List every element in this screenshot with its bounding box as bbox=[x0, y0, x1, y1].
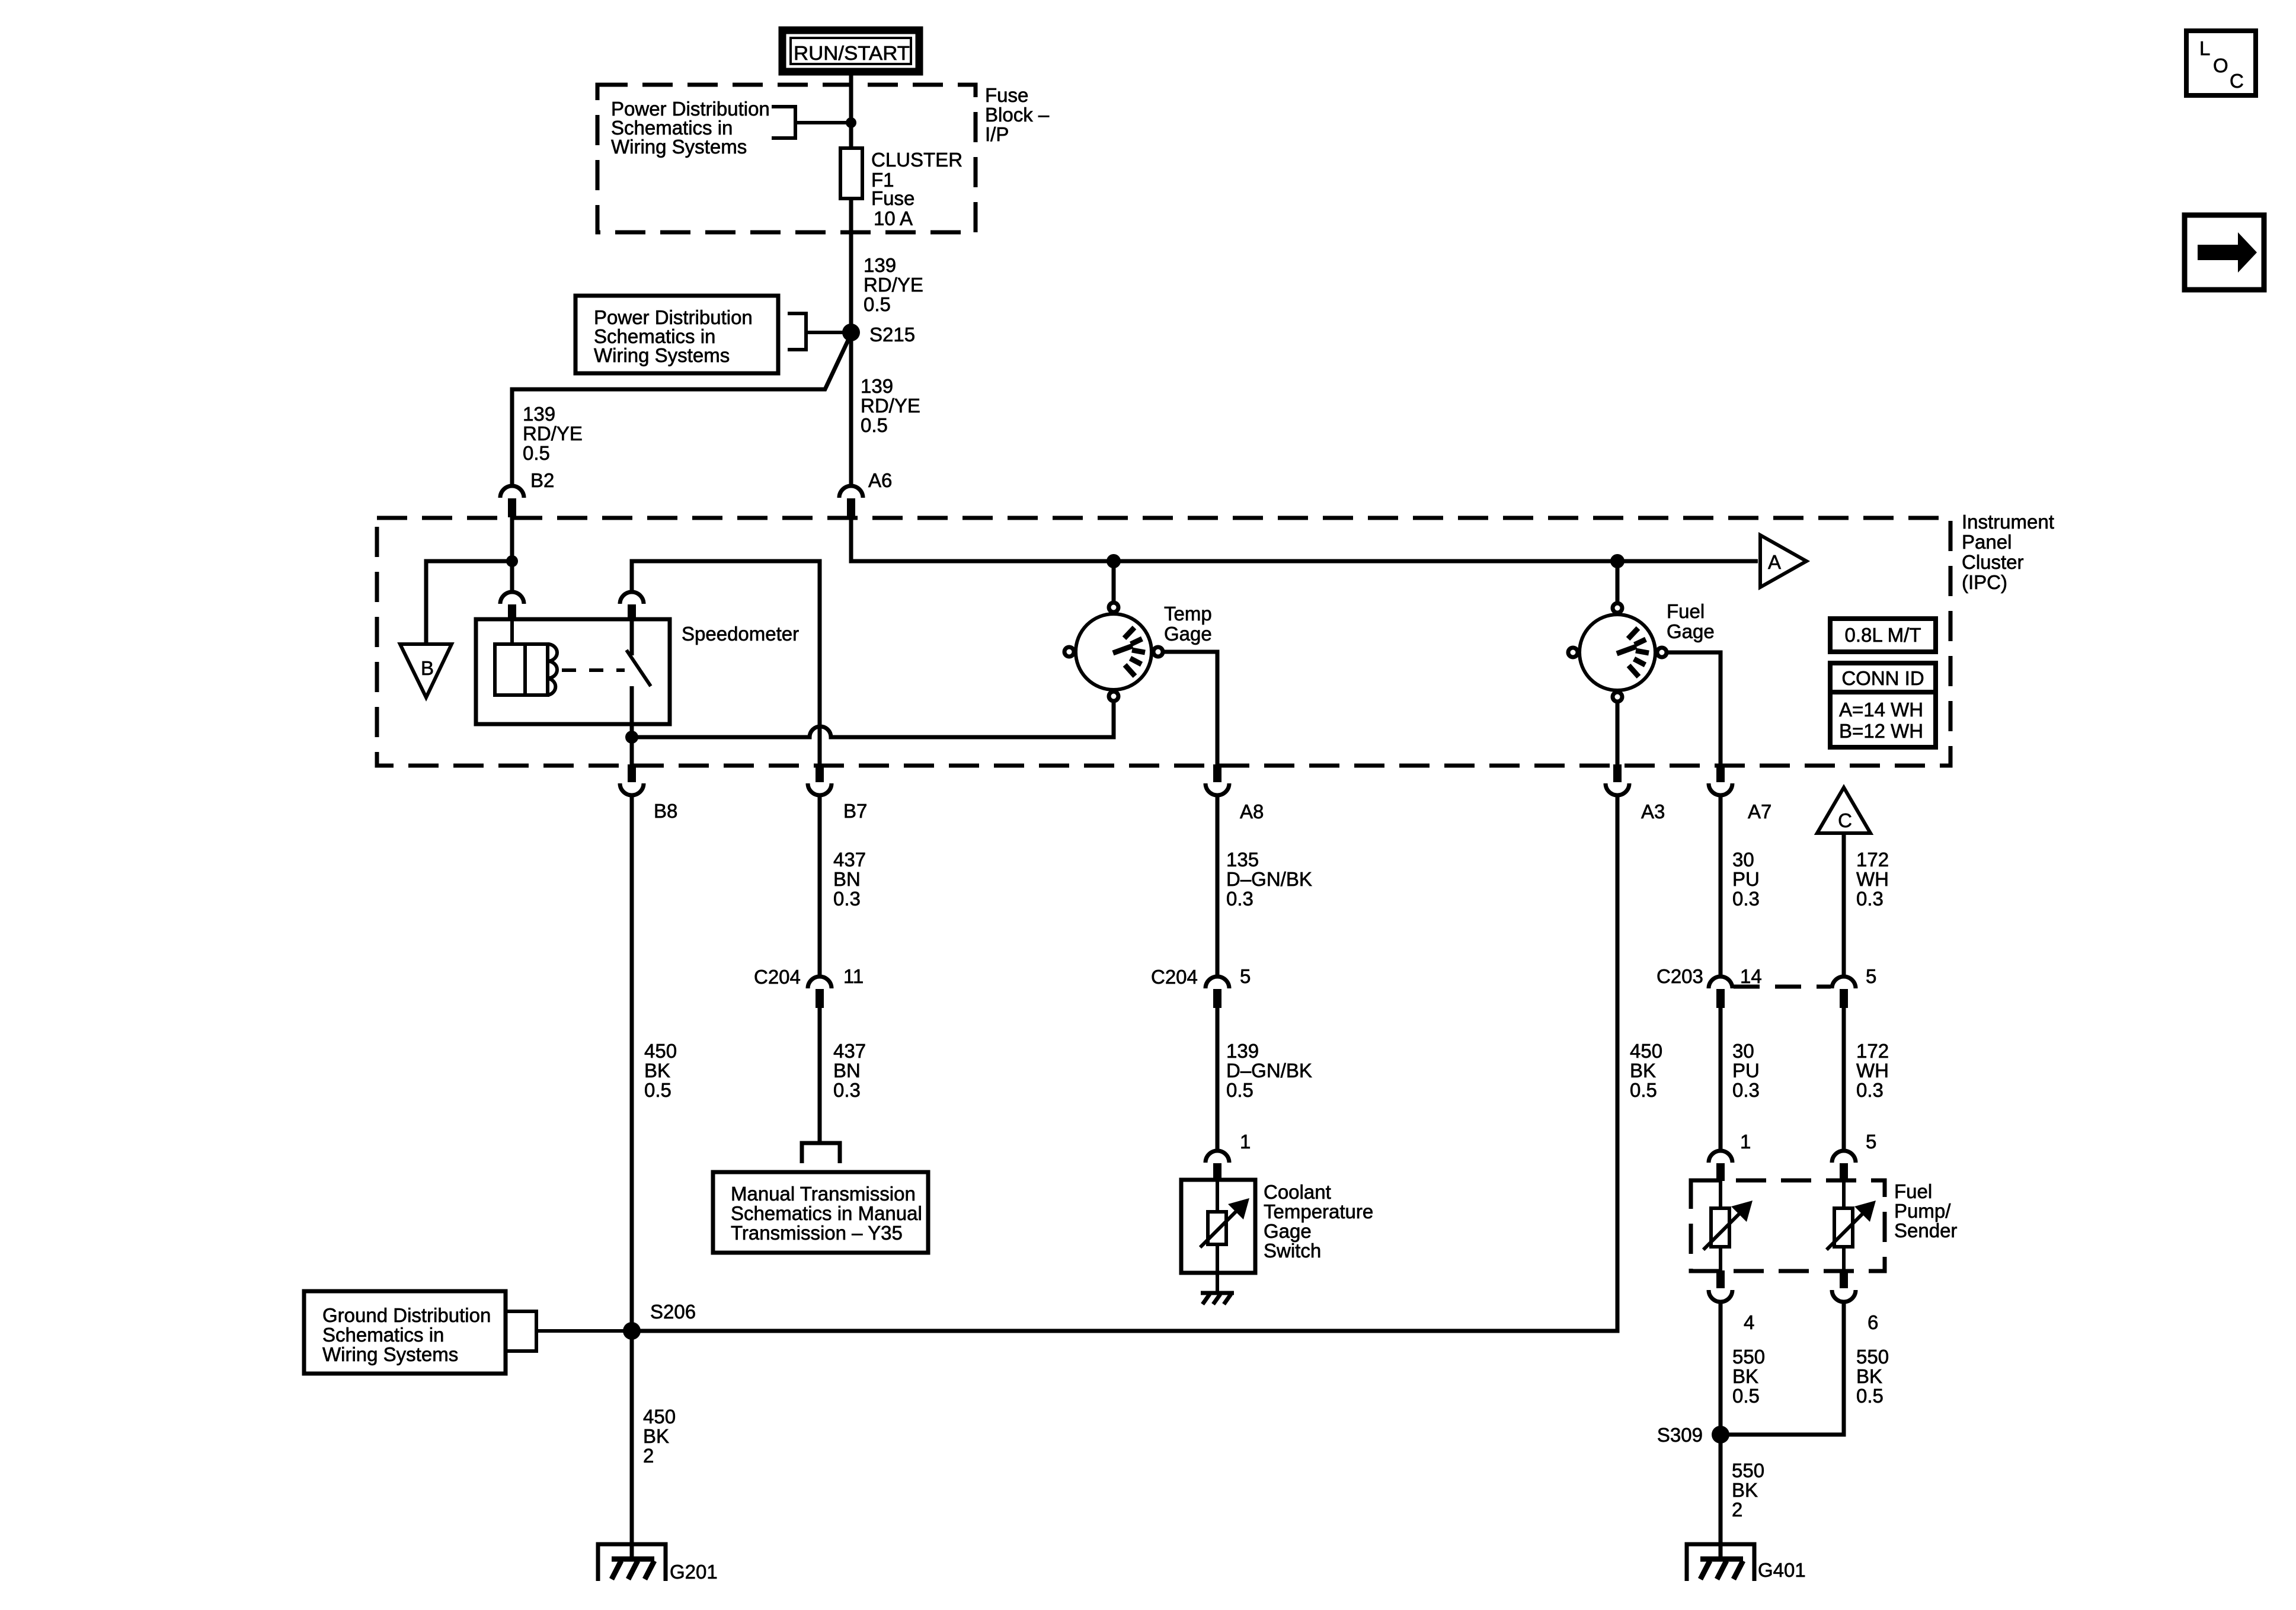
svg-text:Instrument: Instrument bbox=[1962, 511, 2054, 533]
svg-text:14: 14 bbox=[1740, 965, 1762, 987]
svg-text:Fuse: Fuse bbox=[985, 84, 1028, 106]
connector pin 1 (coolant switch) bbox=[1205, 1151, 1229, 1181]
wire B2 into IPC to speedometer coil bbox=[510, 517, 514, 592]
wire temp gauge to A8 bbox=[1164, 652, 1217, 767]
label Coolant Temperature Gage Switch bbox=[1264, 1181, 1373, 1262]
svg-text:WH: WH bbox=[1856, 868, 1889, 890]
wire S309 to G401 bbox=[1719, 1435, 1723, 1559]
connector pin 1 (fuel pump) bbox=[1709, 1151, 1732, 1181]
svg-text:Coolant: Coolant bbox=[1264, 1181, 1331, 1203]
svg-text:C204: C204 bbox=[1151, 966, 1198, 988]
svg-text:4: 4 bbox=[1744, 1311, 1754, 1333]
svg-text:B: B bbox=[421, 657, 434, 679]
splice S206 bbox=[623, 1322, 641, 1340]
wire label 450 BK 0.5 (A3) bbox=[1630, 1040, 1662, 1101]
svg-text:(IPC): (IPC) bbox=[1962, 571, 2007, 593]
svg-text:C: C bbox=[2230, 70, 2244, 92]
svg-text:A: A bbox=[1768, 551, 1781, 573]
fuel pump sender dashed box bbox=[1691, 1180, 1885, 1271]
wire A7 to C203 pin 14 bbox=[1719, 795, 1723, 978]
connector B2 (IPC top) bbox=[500, 486, 524, 517]
connector pin 6 (below fuel pump) bbox=[1832, 1270, 1856, 1302]
svg-text:Ground Distribution: Ground Distribution bbox=[322, 1304, 491, 1326]
svg-text:550: 550 bbox=[1856, 1346, 1889, 1368]
connector C204 pin 11 bbox=[808, 977, 832, 1008]
svg-text:0.5: 0.5 bbox=[1630, 1079, 1657, 1101]
speedometer terminal left bbox=[500, 592, 524, 620]
wire label 172 WH 0.3 (lower) bbox=[1856, 1040, 1889, 1101]
svg-text:139: 139 bbox=[864, 254, 896, 276]
svg-text:550: 550 bbox=[1732, 1346, 1765, 1368]
reference box Manual Transmission Schematics bbox=[713, 1172, 928, 1253]
connector A8 (IPC bottom) bbox=[1205, 764, 1229, 795]
svg-text:A3: A3 bbox=[1641, 801, 1665, 822]
svg-text:A8: A8 bbox=[1240, 801, 1264, 822]
label Fuse Block - I/P bbox=[985, 84, 1050, 145]
connector C203 pin 5 bbox=[1832, 977, 1856, 1008]
fuel gauge feed wire bbox=[1616, 561, 1620, 601]
svg-text:0.5: 0.5 bbox=[1856, 1385, 1884, 1407]
svg-text:5: 5 bbox=[1240, 965, 1251, 987]
svg-text:D–GN/BK: D–GN/BK bbox=[1226, 868, 1312, 890]
svg-text:Wiring Systems: Wiring Systems bbox=[611, 136, 747, 158]
arrow A (output to A) bbox=[1760, 535, 1806, 587]
svg-text:Cluster: Cluster bbox=[1962, 551, 2024, 573]
svg-text:Wiring Systems: Wiring Systems bbox=[594, 344, 730, 366]
svg-text:Panel: Panel bbox=[1962, 531, 2012, 553]
wire label 139 RD/YE 0.5 (B2 branch) bbox=[523, 403, 583, 464]
svg-text:BK: BK bbox=[1630, 1060, 1656, 1081]
wire label 550 BK 2 bbox=[1732, 1459, 1764, 1521]
svg-text:CONN ID: CONN ID bbox=[1841, 667, 1924, 689]
svg-text:Fuel: Fuel bbox=[1894, 1180, 1932, 1202]
wire C203 pin14 to fuel pump pin 1 bbox=[1719, 1008, 1723, 1152]
wire A3 to S206 run bbox=[632, 795, 1617, 1331]
svg-text:RUN/START: RUN/START bbox=[794, 42, 910, 64]
svg-text:Transmission – Y35: Transmission – Y35 bbox=[731, 1222, 903, 1244]
wire label 550 BK 0.5 (pin 4) bbox=[1732, 1346, 1765, 1407]
svg-text:C203: C203 bbox=[1657, 965, 1703, 987]
wire triangle C to C203 pin 5 bbox=[1842, 833, 1846, 978]
ground G401 bbox=[1687, 1544, 1754, 1581]
svg-text:Temp: Temp bbox=[1164, 603, 1212, 625]
svg-text:30: 30 bbox=[1732, 849, 1754, 870]
svg-text:0.3: 0.3 bbox=[1226, 888, 1253, 910]
svg-text:Gage: Gage bbox=[1164, 623, 1212, 645]
svg-text:B2: B2 bbox=[530, 469, 554, 491]
svg-text:1: 1 bbox=[1240, 1131, 1251, 1153]
svg-text:5: 5 bbox=[1866, 965, 1876, 987]
wire S215 to A6 bbox=[849, 332, 853, 486]
connector A6 (IPC top) bbox=[839, 486, 863, 517]
svg-text:Temperature: Temperature bbox=[1264, 1201, 1373, 1222]
splice S215 bbox=[842, 324, 860, 341]
wire C203 pin5 to fuel pump pin 5 bbox=[1842, 1008, 1846, 1152]
wire RUN/START to fuse block bbox=[849, 75, 853, 148]
triangle B (output to B) bbox=[400, 644, 452, 697]
svg-text:Switch: Switch bbox=[1264, 1240, 1321, 1262]
svg-text:450: 450 bbox=[643, 1406, 676, 1427]
svg-text:A=14 WH: A=14 WH bbox=[1839, 699, 1923, 721]
svg-text:A7: A7 bbox=[1748, 801, 1771, 822]
svg-text:BN: BN bbox=[833, 868, 861, 890]
svg-text:139: 139 bbox=[861, 375, 893, 397]
svg-text:A6: A6 bbox=[868, 469, 892, 491]
svg-text:1: 1 bbox=[1740, 1131, 1751, 1153]
reference text Power Distribution Schematics in Wiring Systems (top) bbox=[611, 98, 770, 158]
svg-text:0.5: 0.5 bbox=[861, 414, 888, 436]
svg-text:0.8L M/T: 0.8L M/T bbox=[1845, 624, 1921, 646]
svg-text:6: 6 bbox=[1868, 1311, 1878, 1333]
wire label 30 PU 0.3 (upper) bbox=[1732, 849, 1760, 910]
chassis ground (coolant switch) bbox=[1201, 1293, 1234, 1304]
wire fuse to S215 bbox=[849, 199, 853, 332]
table CONN ID bbox=[1830, 663, 1936, 747]
speedometer box bbox=[476, 619, 670, 724]
junction dot at B2 jog bbox=[506, 555, 518, 567]
wire B7 to C204 bbox=[818, 795, 822, 978]
connector B7 (IPC bottom) bbox=[808, 764, 832, 795]
svg-text:Manual Transmission: Manual Transmission bbox=[731, 1183, 916, 1205]
wire speedometer signal to B7 bbox=[632, 561, 820, 767]
svg-text:0.5: 0.5 bbox=[864, 293, 891, 315]
svg-text:WH: WH bbox=[1856, 1060, 1889, 1081]
speedometer switch bbox=[626, 619, 651, 737]
svg-text:450: 450 bbox=[1630, 1040, 1662, 1062]
svg-text:Fuel: Fuel bbox=[1667, 600, 1705, 622]
junction dot on feed wire bbox=[846, 117, 856, 128]
svg-text:PU: PU bbox=[1732, 868, 1760, 890]
terminal bracket above manual transmission box bbox=[802, 1143, 840, 1163]
svg-text:0.3: 0.3 bbox=[833, 888, 861, 910]
wire label 30 PU 0.3 (lower) bbox=[1732, 1040, 1760, 1101]
svg-text:BK: BK bbox=[644, 1060, 670, 1081]
svg-text:BK: BK bbox=[1732, 1365, 1758, 1387]
svg-text:S309: S309 bbox=[1657, 1424, 1703, 1446]
svg-text:0.3: 0.3 bbox=[833, 1079, 861, 1101]
svg-text:10 A: 10 A bbox=[874, 207, 913, 229]
svg-text:BK: BK bbox=[643, 1425, 669, 1447]
svg-text:CLUSTER: CLUSTER bbox=[871, 149, 962, 171]
svg-text:172: 172 bbox=[1856, 1040, 1889, 1062]
connector A3 (IPC bottom) bbox=[1606, 764, 1629, 795]
bracket from Power Distribution box to S215 bbox=[788, 313, 844, 350]
label Fuel Pump/ Sender bbox=[1894, 1180, 1957, 1241]
wire switch junction to temp gauge (hops over B7) bbox=[632, 703, 1114, 737]
svg-text:Wiring Systems: Wiring Systems bbox=[322, 1343, 458, 1365]
svg-text:5: 5 bbox=[1866, 1131, 1876, 1153]
svg-text:PU: PU bbox=[1732, 1060, 1760, 1081]
svg-text:Gage: Gage bbox=[1667, 620, 1715, 642]
fuel gauge bbox=[1568, 603, 1667, 702]
svg-text:BK: BK bbox=[1732, 1479, 1758, 1501]
svg-text:S215: S215 bbox=[869, 324, 915, 345]
wire A6 feed across IPC bbox=[851, 517, 1758, 561]
svg-text:Pump/: Pump/ bbox=[1894, 1200, 1951, 1222]
svg-text:RD/YE: RD/YE bbox=[861, 395, 920, 417]
speedometer coil bbox=[495, 619, 557, 695]
wire pin 4 to S309 bbox=[1719, 1302, 1723, 1435]
wire fuel gauge to A3 bbox=[1616, 703, 1620, 767]
reference box Power Distribution Schematics in Wiring Systems (solid) bbox=[575, 296, 778, 373]
svg-text:0.3: 0.3 bbox=[1856, 888, 1884, 910]
svg-text:0.3: 0.3 bbox=[1732, 1079, 1760, 1101]
svg-text:2: 2 bbox=[1732, 1499, 1742, 1521]
Instrument Panel Cluster dashed box bbox=[377, 518, 1950, 766]
arrow symbol (next page) bbox=[2185, 215, 2264, 290]
svg-text:0.3: 0.3 bbox=[1732, 888, 1760, 910]
locator symbol LOC bbox=[2186, 31, 2256, 95]
junction dot fuel gauge feed bbox=[1610, 554, 1625, 568]
wire B8 drop bbox=[630, 737, 634, 767]
svg-text:RD/YE: RD/YE bbox=[523, 422, 583, 444]
wire label 139 RD/YE 0.5 (above S215) bbox=[864, 254, 923, 315]
bracket from Power Distribution text to wire bbox=[772, 107, 846, 138]
svg-text:172: 172 bbox=[1856, 849, 1889, 870]
connector pin 5 (fuel pump) bbox=[1832, 1151, 1856, 1181]
fuse block dashed box Fuse Block - I/P bbox=[597, 85, 976, 232]
svg-text:0.5: 0.5 bbox=[644, 1079, 671, 1101]
svg-text:BN: BN bbox=[833, 1060, 861, 1081]
label Instrument Panel Cluster (IPC) bbox=[1962, 511, 2054, 593]
svg-text:B7: B7 bbox=[843, 800, 867, 822]
box 0.8L M/T bbox=[1830, 619, 1936, 652]
svg-text:BK: BK bbox=[1856, 1365, 1882, 1387]
svg-text:2: 2 bbox=[643, 1445, 654, 1467]
svg-text:Speedometer: Speedometer bbox=[682, 623, 799, 645]
svg-text:G401: G401 bbox=[1758, 1559, 1806, 1581]
svg-text:B=12 WH: B=12 WH bbox=[1839, 720, 1923, 742]
svg-text:Block –: Block – bbox=[985, 104, 1050, 126]
svg-text:Fuse: Fuse bbox=[871, 187, 914, 209]
svg-text:B8: B8 bbox=[654, 800, 677, 822]
dashed link C203 bbox=[1734, 985, 1831, 989]
svg-text:D–GN/BK: D–GN/BK bbox=[1226, 1060, 1312, 1081]
svg-text:L: L bbox=[2199, 37, 2210, 59]
wire S215 diagonal to B2 branch bbox=[512, 338, 849, 486]
svg-text:C204: C204 bbox=[754, 966, 801, 988]
wire label 437 BN 0.3 (lower) bbox=[833, 1040, 866, 1101]
svg-text:Schematics in Manual: Schematics in Manual bbox=[731, 1202, 922, 1224]
splice S309 bbox=[1712, 1426, 1729, 1443]
wire coolant switch to ground bbox=[1216, 1273, 1219, 1293]
svg-text:437: 437 bbox=[833, 849, 866, 870]
junction dot temp gauge feed bbox=[1107, 554, 1121, 568]
wire label 139 D-GN/BK 0.5 bbox=[1226, 1040, 1312, 1101]
fuel sender resistor 1 bbox=[1703, 1181, 1753, 1272]
fuse F1 CLUSTER 10 A bbox=[840, 123, 962, 229]
connector B8 (IPC bottom) bbox=[620, 764, 644, 795]
wire label 450 BK 0.5 (B8) bbox=[644, 1040, 677, 1101]
svg-text:135: 135 bbox=[1226, 849, 1259, 870]
wire label 172 WH 0.3 (upper) bbox=[1856, 849, 1889, 910]
wire A8 to C204 pin 5 bbox=[1216, 795, 1220, 978]
svg-text:I/P: I/P bbox=[985, 123, 1009, 145]
speedometer terminal right bbox=[620, 592, 644, 620]
svg-text:Schematics in: Schematics in bbox=[322, 1324, 444, 1346]
temp gauge bbox=[1064, 603, 1163, 701]
dashed mechanical link bbox=[562, 668, 625, 672]
svg-text:11: 11 bbox=[843, 965, 864, 987]
coolant temperature gage switch bbox=[1181, 1180, 1255, 1273]
connector pin 4 (below fuel pump) bbox=[1709, 1270, 1732, 1302]
connector C204 pin 5 bbox=[1205, 977, 1229, 1008]
wire label 437 BN 0.3 (upper) bbox=[833, 849, 866, 910]
svg-text:Gage: Gage bbox=[1264, 1220, 1312, 1242]
wire label 135 D-GN/BK 0.3 bbox=[1226, 849, 1312, 910]
connector A7 (IPC bottom) bbox=[1709, 764, 1732, 795]
connector C203 pin 14 bbox=[1709, 977, 1732, 1008]
svg-text:30: 30 bbox=[1732, 1040, 1754, 1062]
wire B8 to S206 to G201 bbox=[630, 795, 634, 1560]
svg-text:450: 450 bbox=[644, 1040, 677, 1062]
svg-text:S206: S206 bbox=[650, 1301, 696, 1323]
svg-text:RD/YE: RD/YE bbox=[864, 274, 923, 296]
junction dot below switch bbox=[625, 731, 638, 744]
svg-text:550: 550 bbox=[1732, 1459, 1764, 1481]
svg-text:139: 139 bbox=[1226, 1040, 1259, 1062]
label Temp Gage bbox=[1164, 603, 1212, 645]
ground G201 bbox=[598, 1544, 666, 1581]
wire fuel gauge to A7 bbox=[1668, 652, 1721, 767]
bracket from Ground Distribution box to S206 bbox=[506, 1311, 623, 1351]
svg-text:C: C bbox=[1838, 809, 1852, 831]
svg-text:0.3: 0.3 bbox=[1856, 1079, 1884, 1101]
wire C204 to manual transmission bbox=[818, 1008, 822, 1143]
wire label 139 RD/YE 0.5 (A6 branch) bbox=[861, 375, 920, 436]
wire C204 pin5 to coolant switch bbox=[1216, 1008, 1220, 1152]
svg-text:0.5: 0.5 bbox=[523, 442, 550, 464]
svg-text:0.5: 0.5 bbox=[1226, 1079, 1253, 1101]
wire jog to triangle B bbox=[426, 561, 512, 644]
wire label 450 BK 2 bbox=[643, 1406, 676, 1467]
temp gauge feed wire bbox=[1112, 561, 1116, 601]
label Fuel Gage bbox=[1667, 600, 1715, 642]
svg-text:O: O bbox=[2213, 55, 2228, 76]
triangle C (input from C) bbox=[1817, 788, 1870, 833]
fuel sender resistor 2 bbox=[1827, 1181, 1876, 1272]
svg-text:Sender: Sender bbox=[1894, 1219, 1957, 1241]
wire pin 6 to S309 bbox=[1721, 1302, 1844, 1435]
svg-text:0.5: 0.5 bbox=[1732, 1385, 1760, 1407]
reference box Ground Distribution Schematics bbox=[304, 1291, 506, 1374]
wire label 550 BK 0.5 (pin 6) bbox=[1856, 1346, 1889, 1407]
svg-text:139: 139 bbox=[523, 403, 555, 425]
svg-text:G201: G201 bbox=[670, 1561, 718, 1583]
power source box RUN/START bbox=[782, 30, 919, 72]
svg-text:437: 437 bbox=[833, 1040, 866, 1062]
